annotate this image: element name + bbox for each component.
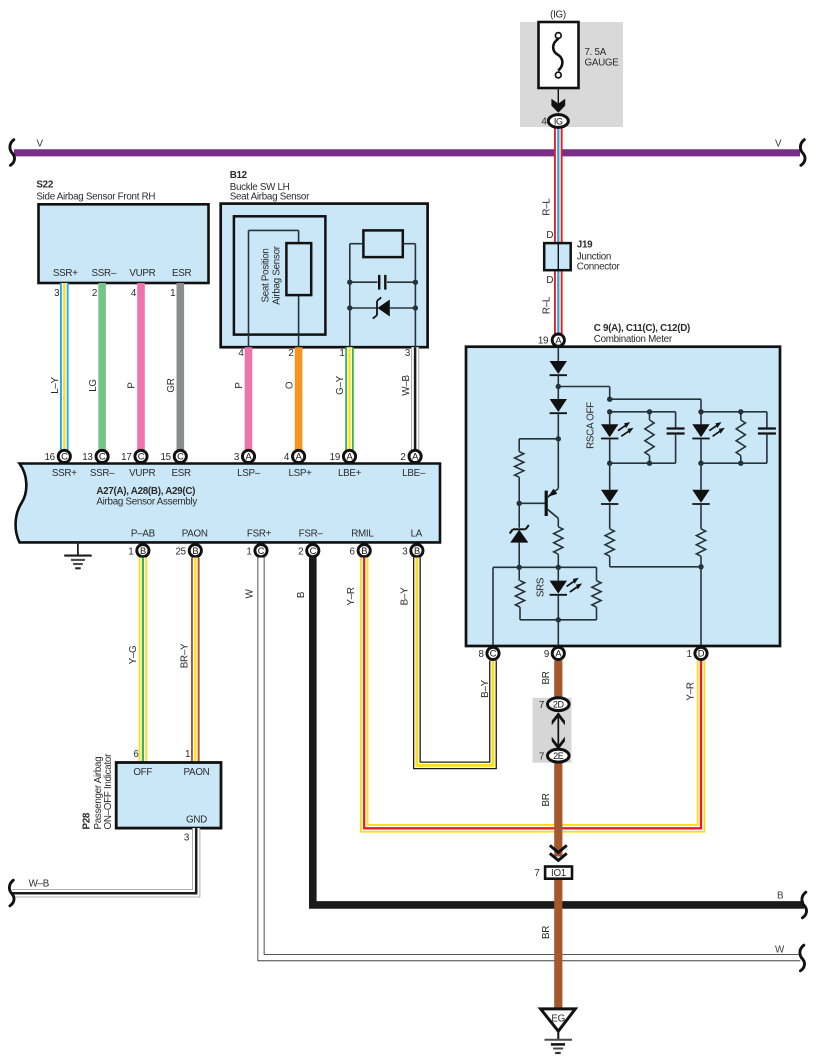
svg-text:1: 1	[128, 546, 133, 557]
svg-text:SRS: SRS	[535, 577, 546, 597]
svg-text:16: 16	[44, 452, 55, 463]
svg-text:LA: LA	[411, 528, 423, 539]
svg-text:LBE+: LBE+	[338, 468, 362, 479]
svg-text:FSR–: FSR–	[299, 528, 324, 539]
svg-text:BR: BR	[541, 926, 552, 939]
svg-text:P: P	[234, 382, 245, 389]
svg-text:7: 7	[539, 700, 544, 711]
svg-text:(IG): (IG)	[550, 10, 566, 21]
svg-text:ON–OFF Indicator: ON–OFF Indicator	[103, 753, 114, 830]
svg-text:W–B: W–B	[29, 879, 50, 890]
svg-text:D: D	[698, 649, 705, 659]
svg-text:V: V	[775, 139, 782, 150]
svg-text:4: 4	[131, 288, 137, 299]
svg-text:VUPR: VUPR	[129, 268, 155, 279]
svg-text:BR: BR	[541, 671, 552, 684]
svg-text:Y–R: Y–R	[685, 682, 696, 700]
svg-text:7: 7	[539, 751, 544, 762]
svg-text:W: W	[775, 944, 785, 955]
svg-text:R–L: R–L	[542, 296, 553, 314]
svg-text:B12: B12	[230, 170, 248, 181]
svg-text:GR: GR	[166, 378, 177, 392]
svg-text:SSR–: SSR–	[90, 468, 115, 479]
svg-text:6: 6	[350, 546, 356, 557]
svg-text:S22: S22	[36, 179, 53, 190]
svg-text:L–Y: L–Y	[50, 376, 61, 393]
svg-text:VUPR: VUPR	[129, 468, 155, 479]
svg-text:SSR+: SSR+	[52, 468, 77, 479]
svg-text:2E: 2E	[553, 751, 564, 761]
svg-text:ESR: ESR	[172, 268, 192, 279]
svg-text:2D: 2D	[553, 700, 565, 710]
svg-text:B: B	[361, 546, 367, 556]
svg-text:3: 3	[184, 832, 190, 843]
svg-text:C: C	[177, 452, 184, 462]
svg-text:3: 3	[234, 452, 240, 463]
svg-text:SSR–: SSR–	[92, 268, 117, 279]
svg-text:19: 19	[330, 452, 340, 463]
svg-text:B: B	[192, 546, 198, 556]
svg-text:P28: P28	[82, 812, 93, 829]
svg-text:Y–G: Y–G	[128, 646, 139, 665]
svg-text:EG: EG	[551, 1013, 565, 1024]
svg-text:B: B	[777, 891, 784, 902]
svg-text:3: 3	[405, 348, 411, 359]
svg-text:R–L: R–L	[542, 198, 553, 216]
svg-text:1: 1	[246, 546, 251, 557]
svg-text:Seat Position: Seat Position	[260, 248, 271, 302]
svg-text:B–Y: B–Y	[480, 679, 491, 697]
svg-text:J19: J19	[577, 240, 593, 251]
svg-text:4: 4	[238, 348, 244, 359]
svg-text:Airbag Sensor: Airbag Sensor	[272, 245, 283, 304]
svg-text:C: C	[61, 452, 68, 462]
svg-text:Y–R: Y–R	[346, 587, 357, 605]
svg-text:Combination Meter: Combination Meter	[594, 334, 673, 345]
svg-text:C: C	[490, 649, 497, 659]
svg-text:SSR+: SSR+	[53, 268, 78, 279]
svg-text:Seat Airbag Sensor: Seat Airbag Sensor	[230, 192, 310, 203]
svg-text:C 9(A), C11(C), C12(D): C 9(A), C11(C), C12(D)	[594, 323, 690, 334]
svg-text:B–Y: B–Y	[400, 587, 411, 605]
svg-text:LSP–: LSP–	[237, 468, 261, 479]
svg-text:D: D	[546, 275, 553, 286]
svg-text:3: 3	[402, 546, 408, 557]
svg-text:3: 3	[54, 288, 60, 299]
svg-text:19: 19	[538, 336, 548, 347]
svg-text:RMIL: RMIL	[351, 528, 374, 539]
svg-text:25: 25	[175, 546, 186, 557]
svg-text:6: 6	[133, 749, 139, 760]
svg-text:4: 4	[541, 117, 547, 128]
svg-text:15: 15	[160, 452, 171, 463]
svg-text:PAON: PAON	[184, 767, 210, 778]
svg-text:1: 1	[339, 348, 344, 359]
svg-text:2: 2	[400, 452, 405, 463]
svg-text:17: 17	[121, 452, 131, 463]
svg-text:4: 4	[284, 452, 290, 463]
svg-text:IO1: IO1	[551, 868, 566, 879]
svg-text:LBE–: LBE–	[402, 468, 426, 479]
svg-text:9: 9	[544, 649, 549, 660]
svg-text:1: 1	[170, 288, 175, 299]
svg-text:IG: IG	[554, 116, 563, 126]
svg-text:2: 2	[298, 546, 303, 557]
svg-text:G–Y: G–Y	[335, 375, 346, 395]
svg-text:13: 13	[82, 452, 93, 463]
svg-text:P–AB: P–AB	[131, 528, 156, 539]
svg-text:C: C	[310, 546, 317, 556]
svg-text:W: W	[244, 588, 255, 598]
svg-text:FSR+: FSR+	[247, 528, 272, 539]
svg-text:OFF: OFF	[133, 767, 152, 778]
svg-text:BR–Y: BR–Y	[180, 643, 191, 668]
svg-text:Airbag Sensor Assembly: Airbag Sensor Assembly	[96, 497, 197, 508]
svg-text:C: C	[258, 546, 265, 556]
svg-text:7: 7	[534, 868, 539, 879]
svg-text:ESR: ESR	[172, 468, 192, 479]
svg-text:LSP+: LSP+	[288, 468, 312, 479]
svg-text:RSCA OFF: RSCA OFF	[585, 402, 596, 449]
svg-text:PAON: PAON	[182, 528, 208, 539]
svg-text:8: 8	[479, 649, 485, 660]
svg-text:D: D	[546, 230, 553, 241]
svg-text:Side Airbag Sensor Front RH: Side Airbag Sensor Front RH	[36, 192, 155, 203]
svg-text:V: V	[37, 139, 44, 150]
svg-text:BR: BR	[541, 793, 552, 806]
svg-text:W–B: W–B	[401, 375, 412, 396]
svg-text:GND: GND	[186, 815, 207, 826]
svg-text:B: B	[140, 546, 146, 556]
svg-text:P: P	[127, 382, 138, 389]
svg-text:LG: LG	[88, 379, 99, 392]
svg-text:2: 2	[92, 288, 97, 299]
svg-text:O: O	[284, 381, 295, 389]
svg-text:1: 1	[185, 749, 190, 760]
svg-text:GAUGE: GAUGE	[585, 57, 620, 68]
svg-text:B: B	[296, 591, 307, 598]
svg-text:1: 1	[687, 649, 692, 660]
svg-text:C: C	[99, 452, 106, 462]
svg-text:Passenger Airbag: Passenger Airbag	[93, 757, 104, 830]
svg-text:2: 2	[288, 348, 293, 359]
svg-text:B: B	[414, 546, 420, 556]
svg-text:Connector: Connector	[577, 261, 621, 272]
svg-text:C: C	[138, 452, 145, 462]
